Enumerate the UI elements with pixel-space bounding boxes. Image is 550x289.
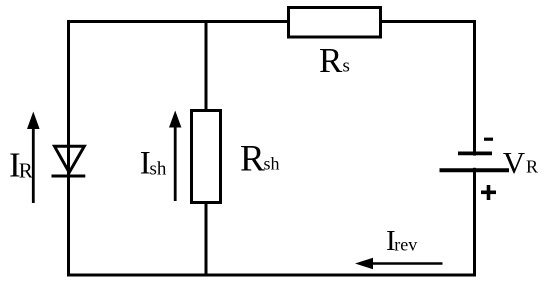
battery VR positive plate (long bar) bbox=[440, 168, 510, 172]
svg-text:V: V bbox=[503, 145, 526, 180]
label Rsh bbox=[240, 139, 280, 180]
resistor Rs bbox=[289, 8, 381, 38]
diode D1 triangle bbox=[55, 146, 85, 172]
svg-text:sh: sh bbox=[264, 154, 280, 174]
node: battery gap in right wire bbox=[469, 156, 480, 168]
label IR bbox=[9, 146, 33, 185]
svg-text:R: R bbox=[240, 139, 265, 180]
battery plus sign bbox=[481, 185, 496, 200]
label VR bbox=[503, 145, 538, 180]
label Rs bbox=[319, 41, 350, 80]
arrow Irev (current arrow left) bbox=[355, 258, 443, 269]
label Irev bbox=[386, 225, 417, 257]
svg-text:sh: sh bbox=[150, 159, 167, 180]
battery minus sign bbox=[484, 138, 493, 141]
arrow Ish (current arrow up) bbox=[169, 111, 181, 202]
diode D1 cathode bar bbox=[52, 174, 86, 177]
battery VR negative plate (short bar) bbox=[458, 152, 492, 156]
resistor Rsh bbox=[192, 111, 221, 203]
svg-text:R: R bbox=[19, 159, 33, 183]
svg-text:R: R bbox=[319, 41, 343, 80]
svg-text:s: s bbox=[343, 56, 350, 77]
label Ish bbox=[140, 146, 167, 182]
wire: middle branch bbox=[205, 22, 208, 276]
svg-text:rev: rev bbox=[394, 235, 417, 255]
wire: outer loop (top, left, right, bottom) bbox=[69, 22, 475, 276]
arrow IR (current arrow up) bbox=[27, 112, 40, 204]
svg-text:R: R bbox=[526, 157, 538, 177]
